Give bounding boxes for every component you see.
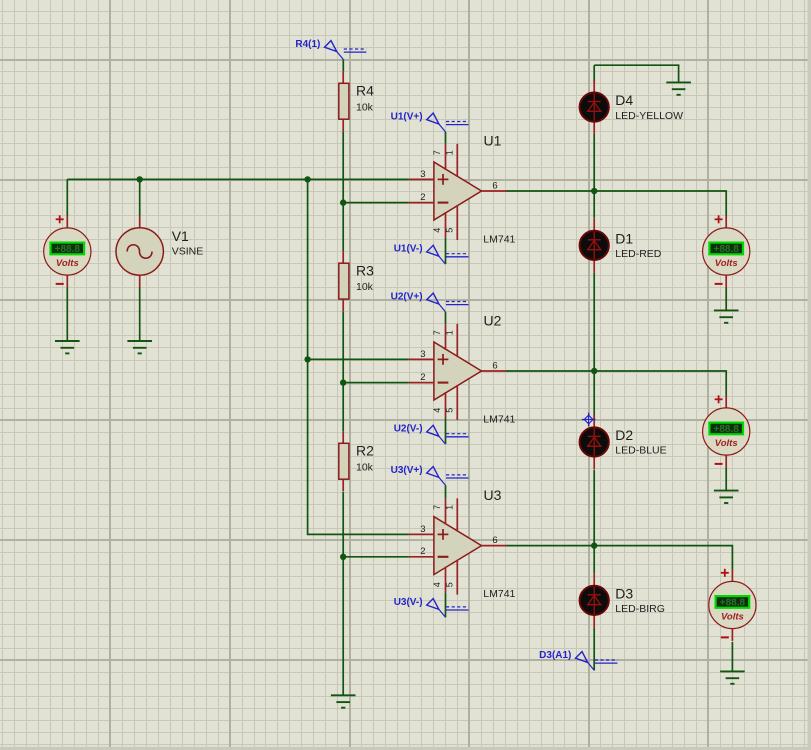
svg-text:D4: D4 [615, 92, 633, 108]
svg-text:U2(V+): U2(V+) [391, 292, 423, 303]
voltmeter left display reading +88.8 [51, 243, 85, 256]
pin number 4 of U3 [432, 582, 442, 587]
pin number 5 of U1 [444, 228, 454, 233]
wire D3 to terminal D3(A1) [593, 628, 595, 671]
svg-text:4: 4 [432, 582, 442, 587]
pin number 3 of U1 [420, 169, 425, 180]
pin number 2 of U2 [420, 372, 425, 383]
svg-text:D3: D3 [615, 585, 633, 601]
voltmeter right 2 display reading +88.8 [709, 423, 743, 436]
wire terminal to R4 [342, 59, 344, 71]
wire D4 to D1 [593, 134, 595, 218]
wire D2 to D3 [593, 470, 595, 573]
op-amp U3 body [409, 498, 506, 594]
ground below voltmeter 1 [714, 310, 739, 322]
pin number 2 of U3 [420, 546, 425, 557]
voltmeter right 3 display reading +88.8 [716, 596, 750, 609]
svg-text:6: 6 [492, 181, 497, 192]
resistor R4 [339, 71, 349, 131]
value VSINE of V1 [172, 246, 204, 258]
label D2 [615, 427, 633, 443]
svg-text:U1: U1 [484, 132, 502, 148]
svg-text:R4: R4 [356, 83, 374, 99]
terminal U3(V+) [391, 465, 469, 485]
pin number 3 of U3 [420, 524, 425, 535]
svg-text:6: 6 [492, 535, 497, 546]
voltmeter right 3 body [709, 569, 756, 641]
svg-text:7: 7 [432, 505, 442, 510]
junction R column / U2 pin2 [340, 379, 346, 385]
wire U3 V+ stub [445, 485, 447, 498]
value LED-RED of D1 [615, 248, 662, 260]
svg-text:1: 1 [444, 150, 454, 155]
svg-text:2: 2 [420, 372, 425, 383]
voltmeter left minus mark [56, 283, 64, 285]
wire U2 V- stub [445, 418, 447, 445]
wire branch to U2 pin3 [308, 358, 409, 360]
wire column A down to U3 pin3 [308, 179, 409, 534]
wire U1 V+ stub [445, 132, 447, 144]
svg-text:Volts: Volts [715, 438, 738, 449]
wire left voltmeter to ground [66, 287, 68, 341]
label U2 [484, 312, 502, 328]
label V1 [172, 228, 189, 244]
voltmeter right 2 body [703, 396, 750, 468]
terminal U2(V-) [394, 424, 469, 444]
svg-text:7: 7 [432, 330, 442, 335]
wire D4 anode stub [593, 65, 595, 82]
resistor R2 [339, 431, 349, 491]
voltmeter right 2 minus mark [715, 463, 723, 465]
wire U1 V- stub [445, 238, 447, 265]
wire U2 V+ stub [445, 312, 447, 324]
pin number 1 of U1 [444, 150, 454, 155]
svg-text:D1: D1 [615, 230, 633, 246]
terminal U1(V+) [391, 112, 469, 132]
value 10k of R4 [356, 101, 374, 113]
voltmeter right 3 Volts label [721, 612, 744, 623]
svg-text:D3(A1): D3(A1) [539, 650, 571, 661]
svg-text:5: 5 [444, 228, 454, 233]
svg-text:2: 2 [420, 192, 425, 203]
svg-text:LM741: LM741 [483, 413, 515, 425]
svg-text:U2(V-): U2(V-) [394, 424, 423, 435]
junction R column / U1 pin2 [340, 199, 346, 205]
wire branch to U2 pin2 [343, 382, 409, 384]
junction R column / U3 pin2 [340, 554, 346, 560]
marker (origin crosshair at D2) [582, 413, 596, 427]
voltmeter right 1 minus mark [715, 283, 723, 285]
op-amp U1 body [409, 144, 506, 240]
svg-text:LED-BIRG: LED-BIRG [615, 603, 665, 615]
pin number 5 of U3 [444, 582, 454, 587]
svg-text:Volts: Volts [56, 258, 79, 269]
junction LED column / U3 output [591, 542, 597, 548]
svg-text:5: 5 [444, 408, 454, 413]
svg-text:U1(V+): U1(V+) [391, 112, 423, 123]
wire U3 V- stub [445, 592, 447, 617]
pin number 4 of U2 [432, 408, 442, 413]
ground top right (D4) [666, 82, 691, 94]
wire V1 riser [139, 179, 141, 216]
svg-text:LED-YELLOW: LED-YELLOW [615, 110, 683, 122]
voltmeter right 1 plus mark [715, 215, 723, 223]
svg-text:5: 5 [444, 582, 454, 587]
wire R2 to ground [342, 492, 344, 696]
value LM741 of U2 [483, 413, 515, 425]
wire voltmeter 1 to ground [725, 287, 727, 310]
pin number 7 of U1 [432, 150, 442, 155]
label R4 [356, 83, 374, 99]
voltmeter left Volts label [56, 258, 79, 269]
ground below left voltmeter [55, 341, 80, 353]
svg-text:2: 2 [420, 546, 425, 557]
voltmeter left plus mark [56, 215, 64, 223]
ground below voltmeter 3 [720, 671, 745, 683]
LED D2 [580, 415, 609, 470]
svg-text:3: 3 [420, 349, 425, 360]
svg-text:U2: U2 [484, 312, 502, 328]
wire D1 to D2 [593, 273, 595, 420]
wire voltmeter 3 to ground [731, 642, 733, 672]
ground below voltmeter 2 [714, 491, 739, 503]
ground below R column [331, 695, 356, 707]
svg-text:1: 1 [444, 330, 454, 335]
wire net IN main horizontal [67, 178, 409, 180]
pin number 4 of U1 [432, 228, 442, 233]
svg-text:4: 4 [432, 228, 442, 233]
svg-text:U3(V+): U3(V+) [391, 465, 423, 476]
wire branch to U1 pin2 [343, 202, 409, 204]
voltmeter right 1 display reading +88.8 [709, 243, 743, 256]
svg-text:6: 6 [492, 361, 497, 372]
svg-text:7: 7 [432, 150, 442, 155]
pin number 6 of U1 [492, 181, 497, 192]
svg-text:+88.8: +88.8 [714, 424, 740, 435]
wire U1 output to D-column and voltmeter 1 [506, 191, 726, 216]
voltmeter right 1 Volts label [715, 258, 738, 269]
voltmeter right 3 minus mark [721, 636, 729, 638]
svg-text:3: 3 [420, 524, 425, 535]
wire D4 top to ground [594, 65, 678, 82]
op-amp U2 body [409, 324, 506, 420]
wire U2 output to D-column and voltmeter 2 [506, 371, 726, 396]
svg-text:VSINE: VSINE [172, 246, 204, 258]
label D3 [615, 585, 633, 601]
svg-text:D2: D2 [615, 427, 633, 443]
label D1 [615, 230, 633, 246]
voltmeter right 2 Volts label [715, 438, 738, 449]
value LED-BLUE of D2 [615, 445, 666, 457]
LED D1 [580, 218, 609, 273]
svg-text:R4(1): R4(1) [295, 39, 320, 50]
value LED-YELLOW of D4 [615, 110, 683, 122]
junction LED column / U2 output [591, 368, 597, 374]
pin number 3 of U2 [420, 349, 425, 360]
label R2 [356, 443, 374, 459]
LED D4 [580, 80, 609, 135]
junction column A / U2 pin3 [304, 356, 310, 362]
pin number 1 of U3 [444, 505, 454, 510]
svg-text:LM741: LM741 [483, 588, 515, 600]
terminal U1(V-) [394, 244, 469, 264]
pin number 7 of U2 [432, 330, 442, 335]
svg-text:10k: 10k [356, 461, 374, 473]
pin number 2 of U1 [420, 192, 425, 203]
svg-text:+88.8: +88.8 [55, 244, 81, 255]
wire R3 to R2 [342, 311, 344, 431]
voltmeter right 1 body [703, 216, 750, 288]
svg-text:+88.8: +88.8 [720, 598, 746, 609]
svg-text:+88.8: +88.8 [714, 244, 740, 255]
wire R4 to R3 [342, 131, 344, 251]
svg-text:Volts: Volts [721, 612, 744, 623]
svg-text:3: 3 [420, 169, 425, 180]
value 10k of R3 [356, 281, 374, 293]
svg-text:4: 4 [432, 408, 442, 413]
pin number 1 of U2 [444, 330, 454, 335]
pin number 7 of U3 [432, 505, 442, 510]
sine source V1 [116, 216, 163, 288]
voltmeter right 2 plus mark [715, 395, 723, 403]
label R3 [356, 263, 374, 279]
junction column A / main wire [304, 176, 310, 182]
label U1 [484, 132, 502, 148]
svg-text:10k: 10k [356, 281, 374, 293]
svg-text:LED-RED: LED-RED [615, 248, 662, 260]
label U3 [484, 487, 502, 503]
svg-text:U3(V-): U3(V-) [394, 597, 423, 608]
svg-text:R2: R2 [356, 443, 374, 459]
label D4 [615, 92, 633, 108]
svg-text:U1(V-): U1(V-) [394, 244, 423, 255]
wire branch to U3 pin2 [343, 556, 409, 558]
LED D3 [580, 573, 609, 628]
terminal U2(V+) [391, 292, 469, 312]
value LM741 of U3 [483, 588, 515, 600]
pin number 6 of U2 [492, 361, 497, 372]
wire V1 to ground [139, 288, 141, 342]
voltmeter left body [44, 216, 91, 288]
junction LED column / U1 output [591, 188, 597, 194]
svg-text:LM741: LM741 [483, 233, 515, 245]
value LED-BIRG of D3 [615, 603, 665, 615]
svg-text:1: 1 [444, 505, 454, 510]
junction V1 / main wire [137, 176, 143, 182]
resistor R3 [339, 251, 349, 311]
svg-text:10k: 10k [356, 101, 374, 113]
wire U3 output to D-column and voltmeter 3 [506, 546, 732, 570]
svg-text:R3: R3 [356, 263, 374, 279]
pin number 6 of U3 [492, 535, 497, 546]
pin number 5 of U2 [444, 408, 454, 413]
svg-text:LED-BLUE: LED-BLUE [615, 445, 666, 457]
terminal U3(V-) [394, 597, 469, 617]
wire left voltmeter riser [66, 179, 68, 216]
value LM741 of U1 [483, 233, 515, 245]
svg-text:Volts: Volts [715, 258, 738, 269]
voltmeter right 3 plus mark [721, 569, 729, 577]
terminal D3(A1) [539, 650, 617, 670]
svg-text:V1: V1 [172, 228, 189, 244]
wire voltmeter 2 to ground [725, 467, 727, 490]
svg-text:U3: U3 [484, 487, 502, 503]
terminal R4(1) [295, 39, 366, 59]
value 10k of R2 [356, 461, 374, 473]
ground below V1 [127, 341, 152, 353]
